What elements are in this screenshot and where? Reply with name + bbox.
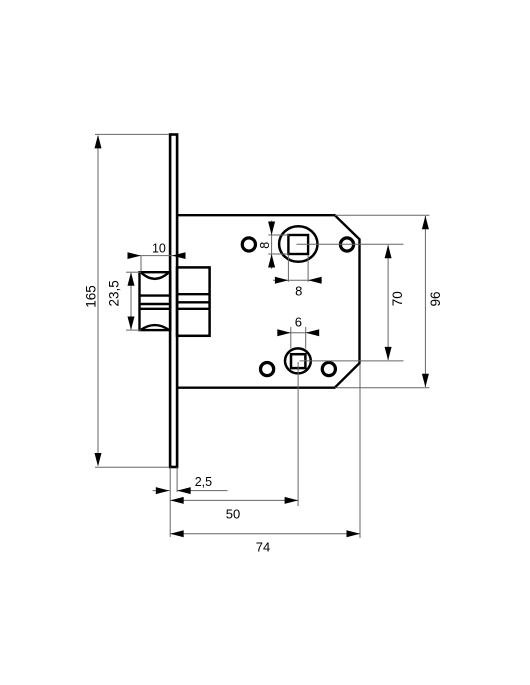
screw hole lower-left: [261, 363, 274, 376]
svg-text:10: 10: [152, 241, 166, 255]
screw hole lower-right: [322, 362, 335, 375]
dimension 8 vertical: [258, 221, 289, 269]
upper follower circle: [279, 226, 317, 262]
dimension 2,5: [153, 467, 228, 494]
svg-text:165: 165: [83, 285, 98, 308]
dimension 6: [277, 315, 319, 349]
dimension 165: [83, 134, 169, 467]
lock body outline: [177, 215, 360, 388]
dimension 50: [170, 362, 298, 537]
latch housing: [177, 267, 210, 335]
lower spindle square 6mm: [291, 354, 305, 368]
svg-text:23,5: 23,5: [107, 280, 122, 306]
dimension 70: [385, 245, 405, 361]
svg-text:50: 50: [226, 506, 240, 521]
dimension 74: [170, 364, 360, 555]
upper spindle square 8mm: [288, 235, 308, 254]
dimension 96: [335, 215, 443, 388]
svg-text:6: 6: [295, 315, 302, 330]
svg-text:2,5: 2,5: [195, 475, 212, 489]
svg-text:70: 70: [390, 291, 405, 306]
screw hole upper-left: [242, 238, 255, 251]
latch bolt: [140, 272, 171, 330]
centerline lower follower: [300, 360, 404, 362]
corner hole upper-right: [340, 238, 353, 251]
dimension 10: [128, 241, 186, 271]
svg-text:74: 74: [256, 540, 270, 555]
centerline upper follower: [297, 243, 404, 245]
svg-text:96: 96: [428, 291, 443, 306]
svg-text:8: 8: [258, 242, 272, 249]
svg-text:8: 8: [295, 283, 302, 298]
lower follower circle: [285, 348, 311, 373]
faceplate: [170, 135, 177, 468]
dimension 8 horizontal: [273, 255, 322, 298]
dimension 23,5: [107, 272, 141, 330]
